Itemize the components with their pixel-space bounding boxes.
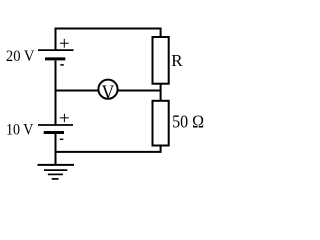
wire: between R and 50 ohm resistor (160, 84, 162, 101)
wire: bottom rail (below 50 ohm down, bottom horizontal to left rail) (55, 146, 161, 152)
B2 positive plate (long thin) (38, 124, 73, 126)
voltmeter M1 (98, 80, 117, 104)
svg-text:R: R (171, 51, 183, 70)
battery B1 20V (38, 39, 74, 65)
ground (38, 165, 75, 179)
svg-text:10 V: 10 V (6, 122, 34, 139)
B1 negative plate (short thick) (45, 57, 65, 60)
svg-text:V: V (102, 83, 115, 104)
B1 positive plate (long thin) (38, 49, 74, 51)
B1 minus sign (60, 64, 64, 66)
B2 minus sign (60, 138, 64, 140)
svg-text:50 Ω: 50 Ω (172, 112, 204, 132)
B2 negative plate (short thick) (44, 131, 64, 134)
B1 plus sign (60, 39, 69, 48)
wire: top rail (left vertical top + top horizontal + right vertical to R) (56, 29, 161, 50)
wire: left rail middle (B1 minus to B2 plus) (55, 61, 57, 125)
battery B2 10V (38, 114, 73, 140)
wire: voltmeter right lead (117, 90, 162, 92)
wire: voltmeter left lead (55, 90, 100, 92)
resistor R (153, 37, 169, 84)
wire: B2 minus to ground (55, 134, 57, 165)
resistor R2 50 ohm (153, 101, 169, 146)
B2 plus sign (60, 114, 69, 122)
svg-text:20 V: 20 V (6, 48, 35, 65)
